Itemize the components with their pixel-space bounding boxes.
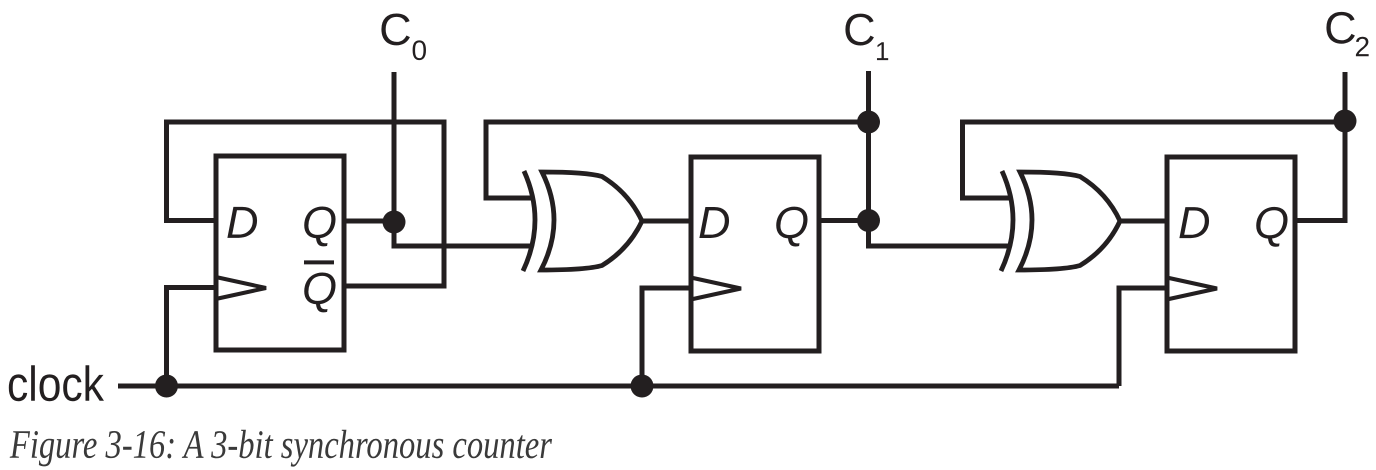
wire: clock bus (118, 384, 1119, 389)
clock edge triangle U3 (1169, 278, 1217, 299)
node C1 loop junction (857, 111, 880, 134)
wire: Q-bar1 to D1 feedback loop (167, 122, 445, 286)
svg-text:1: 1 (875, 36, 889, 66)
wire: Q1 output to node C0 (344, 219, 394, 224)
wire: Q1 to XOR1 lower input (394, 222, 531, 246)
node C0 junction (383, 211, 406, 234)
wire: C1 junction down to Q2 level (866, 122, 871, 221)
wire: XOR2 output to D3 (1119, 219, 1167, 224)
xor gate X1 input arc (523, 171, 535, 271)
flip-flop U1 (216, 156, 344, 350)
svg-text:C: C (1324, 2, 1357, 53)
xor gate X2 input arc (1001, 171, 1013, 271)
clock edge triangle U2 (693, 278, 741, 299)
node C1 Q2 junction (857, 209, 880, 232)
node C2 junction (1334, 110, 1357, 133)
xor gate X1 body (541, 172, 642, 270)
xor gate X2 body (1019, 172, 1120, 270)
svg-text:0: 0 (412, 35, 428, 66)
wire: node C1 to XOR1 upper input loop (486, 122, 869, 198)
svg-text:C: C (843, 4, 876, 55)
node clock-U2 junction (631, 375, 654, 398)
node clock-U1 junction (155, 375, 178, 398)
svg-text:2: 2 (1355, 31, 1371, 62)
flip-flop U2 (691, 157, 819, 351)
wire: Q2 to XOR2 lower input (869, 221, 1010, 247)
wire: Q3 output up to node C2 (1295, 120, 1345, 221)
overbar of Q-bar U1 (304, 260, 334, 264)
svg-text:Q: Q (302, 197, 337, 248)
svg-text:Q: Q (1254, 197, 1289, 248)
wire: C0 stub (392, 72, 397, 222)
svg-text:Q: Q (302, 263, 337, 314)
wire: C2 stub (1343, 72, 1348, 120)
clock edge triangle U1 (218, 278, 266, 299)
wire: node C2 to XOR2 upper input loop (963, 122, 1346, 198)
wire: XOR1 output to D2 (641, 219, 691, 224)
svg-text:Q: Q (774, 197, 809, 248)
wire: C1 stub (866, 71, 871, 122)
wire: clock to U3 (1119, 288, 1167, 386)
svg-text:D: D (1178, 197, 1211, 248)
flip-flop U3 (1167, 157, 1295, 351)
wire: Q2 output to node C1 (819, 218, 869, 223)
svg-text:clock: clock (7, 358, 104, 412)
svg-text:D: D (226, 197, 259, 248)
wire: clock to U2 (642, 288, 691, 386)
wire: clock to U1 (167, 288, 217, 387)
svg-text:D: D (698, 197, 731, 248)
svg-text:Figure 3-16: A 3-bit synchrono: Figure 3-16: A 3-bit synchronous counter (9, 422, 552, 467)
svg-text:C: C (379, 4, 412, 55)
